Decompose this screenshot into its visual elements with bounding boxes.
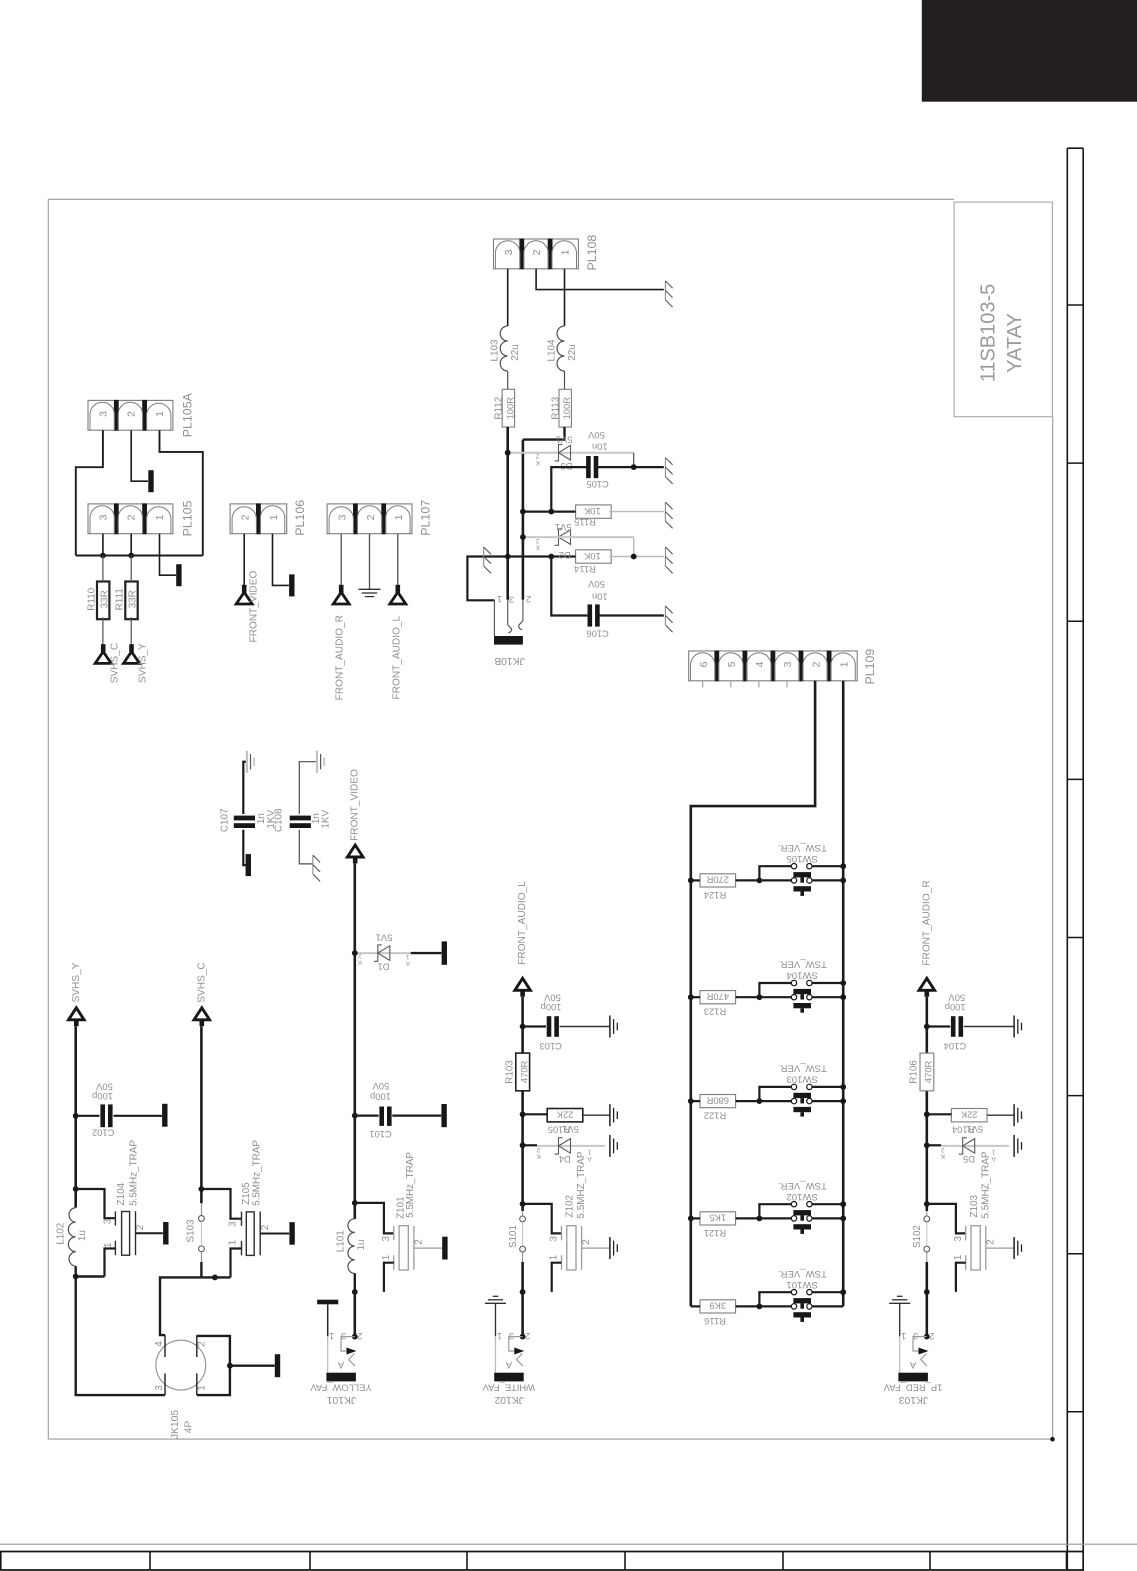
wire D1 anode to ground bar	[411, 952, 442, 954]
wire S102 top stub	[926, 1211, 928, 1216]
svg-text:3: 3	[381, 1235, 392, 1241]
wire Z101 pin1 lead	[384, 1263, 394, 1292]
svg-text:K: K	[357, 959, 362, 966]
svg-text:R122: R122	[704, 1111, 726, 1122]
wire D1 rail (light)	[355, 952, 411, 954]
svg-text:100p: 100p	[541, 1002, 562, 1013]
svg-text:C105: C105	[586, 479, 608, 490]
wire PL105 pin2 stub	[130, 534, 132, 556]
port flag SVHS_C (mid)	[194, 1008, 210, 1020]
wire PL108 pin1 to L104	[564, 269, 566, 326]
svg-text:1: 1	[268, 514, 280, 520]
wire D3 rail (light)	[508, 452, 634, 454]
capacitor C106	[588, 604, 593, 626]
wire JK105 pin2 to ground	[197, 1336, 275, 1366]
svg-text:PL105A: PL105A	[181, 392, 195, 437]
svg-text:L104: L104	[546, 339, 557, 361]
jack JK105 (4P mini-DIN)	[156, 1340, 206, 1390]
chassis ground (C105)	[664, 458, 666, 477]
ground bar (PL105A pin2)	[148, 470, 153, 492]
svg-text:5.5MHz_TRAP: 5.5MHz_TRAP	[128, 1140, 139, 1206]
wire R114 left lead	[508, 555, 576, 557]
svg-text:2: 2	[531, 249, 543, 255]
svg-text:SVHS_C: SVHS_C	[197, 962, 208, 1002]
switch SW103 + resistor R122	[700, 1095, 736, 1108]
ground bar (D1)	[442, 941, 447, 964]
svg-text:R113: R113	[550, 396, 561, 419]
svg-text:5V1: 5V1	[966, 1124, 983, 1135]
wire PL109 pin1 right bus	[842, 681, 845, 1306]
svg-text:470R: 470R	[923, 1060, 934, 1083]
wire FRONT_AUDIO_L upper vertical	[521, 997, 524, 1211]
svg-text:3: 3	[782, 661, 794, 667]
svg-text:1: 1	[154, 411, 166, 417]
svg-text:1: 1	[497, 1331, 502, 1341]
svg-text:5.5MHz_TRAP: 5.5MHz_TRAP	[251, 1140, 262, 1206]
inductor L104	[557, 326, 565, 371]
svg-text:1: 1	[838, 661, 850, 667]
resistor R110	[97, 582, 109, 620]
wire R104 left lead	[927, 1113, 952, 1115]
wire D5 rail (light)	[941, 1145, 1009, 1147]
resistor R112	[502, 389, 514, 427]
svg-text:10n: 10n	[592, 591, 608, 602]
svg-text:100R: 100R	[504, 397, 515, 420]
svg-text:50V: 50V	[372, 1081, 389, 1092]
svg-text:C102: C102	[92, 1128, 114, 1139]
ground bar (JK105)	[275, 1354, 280, 1377]
earth ground (Z102 pin2)	[609, 1237, 611, 1259]
svg-text:5V1: 5V1	[556, 434, 573, 445]
svg-text:10K: 10K	[583, 506, 600, 517]
ground bar (Z104 pin2)	[163, 1222, 168, 1245]
svg-text:SW101: SW101	[786, 1279, 817, 1290]
port flag SVHS_Y (top)	[129, 644, 134, 652]
node bus1/D3 junction	[505, 450, 511, 456]
svg-text:3: 3	[336, 514, 348, 520]
svg-text:D4: D4	[559, 1154, 571, 1165]
svg-text:1: 1	[381, 1254, 392, 1260]
svg-text:A: A	[991, 1155, 996, 1162]
wire C102 right lead	[114, 1115, 162, 1117]
resistor R103	[516, 1053, 530, 1091]
wire C104 right lead	[964, 1026, 1014, 1028]
svg-text:22u: 22u	[510, 344, 521, 360]
svg-text:4: 4	[754, 661, 766, 667]
wire S102 bottom stub	[926, 1252, 928, 1262]
svg-text:22K: 22K	[556, 1110, 573, 1121]
svg-text:2: 2	[581, 1239, 592, 1245]
node L101 junction	[352, 1200, 358, 1206]
wire D5 stub	[927, 1144, 941, 1146]
node C102 junction	[73, 1113, 79, 1119]
resistor R106	[920, 1053, 934, 1091]
wire PL109 pin2 to left bus	[691, 681, 815, 1307]
svg-text:1: 1	[953, 1254, 964, 1260]
svg-text:22K: 22K	[960, 1110, 977, 1121]
svg-text:2: 2	[197, 1341, 208, 1347]
svg-text:1: 1	[393, 514, 405, 520]
svg-text:D5: D5	[963, 1154, 975, 1165]
wire FRONT_AUDIO_L lower vertical	[521, 1262, 524, 1337]
svg-text:270R: 270R	[706, 875, 729, 886]
capacitor C105	[586, 456, 591, 478]
wire Z104 pin3 branch	[76, 1189, 116, 1218]
svg-text:S103: S103	[185, 1219, 196, 1243]
wire C105 right plate to chassis	[598, 466, 664, 468]
wire S101 bottom stub	[522, 1252, 524, 1262]
svg-text:TSW_VER.: TSW_VER.	[778, 959, 827, 970]
jack JK102 (WHITE_FAV)	[493, 1295, 499, 1297]
svg-text:R124: R124	[704, 890, 726, 901]
wire C108 bottom lead	[299, 830, 313, 864]
wire S103 bottom	[200, 1262, 202, 1277]
zone reference column (right edge)	[1066, 148, 1068, 1571]
svg-text:1: 1	[197, 1385, 208, 1391]
earth ground (C108)	[316, 751, 318, 773]
wire L102 bottom lead	[74, 1266, 76, 1276]
node R115/bus2 junction	[520, 509, 526, 515]
svg-text:3: 3	[227, 1221, 238, 1227]
svg-text:100p: 100p	[92, 1091, 113, 1102]
pin stub PL109 pin6	[702, 681, 704, 688]
inductor L102	[68, 1208, 75, 1267]
svg-text:S101: S101	[508, 1224, 519, 1248]
node R114/C106 junction	[548, 554, 554, 560]
svg-text:3: 3	[953, 1235, 964, 1241]
wire C104 left lead	[927, 1025, 950, 1027]
wire SVHS_Y vertical	[74, 1026, 77, 1207]
wire Z103 pin3 branch	[927, 1204, 966, 1234]
earth ground (C104)	[1013, 1016, 1015, 1038]
wire R105 right lead	[583, 1114, 610, 1116]
wire PL108 pin2 to chassis	[536, 269, 664, 290]
wire L103 to R112	[507, 371, 509, 389]
chassis ground (R115)	[664, 502, 666, 521]
ground bar (C107)	[246, 854, 251, 876]
svg-text:R103: R103	[505, 1060, 516, 1084]
wire JK105 pin4 net	[160, 1277, 231, 1335]
ground bar (PL106 pin1)	[289, 574, 294, 596]
chassis ground (C108)	[312, 855, 314, 874]
svg-text:50V: 50V	[587, 579, 604, 590]
svg-text:5.5MHZ_TRAP: 5.5MHZ_TRAP	[576, 1151, 587, 1218]
capacitor C101	[379, 1107, 384, 1126]
svg-text:PL108: PL108	[585, 235, 599, 271]
port flag FRONT_AUDIO_R (at PL107)	[339, 585, 344, 593]
svg-text:4P: 4P	[183, 1421, 194, 1434]
resistor R115	[576, 505, 612, 518]
svg-text:2: 2	[535, 537, 539, 544]
svg-text:PL105: PL105	[181, 500, 195, 536]
svg-text:2: 2	[810, 661, 822, 667]
svg-text:C108: C108	[273, 808, 284, 832]
svg-text:10K: 10K	[583, 551, 600, 562]
capacitor C104	[951, 1016, 956, 1037]
trap Z104 5.5MHz	[114, 1211, 116, 1225]
wire Z102 pin3 branch	[523, 1204, 562, 1234]
svg-text:5.5MHz_TRAP: 5.5MHz_TRAP	[405, 1152, 416, 1218]
node JK102 feed junction	[520, 1289, 526, 1295]
svg-text:33R: 33R	[128, 590, 139, 608]
svg-text:3: 3	[97, 514, 109, 520]
svg-text:SVHS_Y: SVHS_Y	[71, 962, 82, 1002]
connector PL109	[689, 651, 858, 681]
node L102 junction	[73, 1186, 79, 1192]
svg-text:5.5MHZ_TRAP: 5.5MHZ_TRAP	[980, 1151, 991, 1218]
svg-text:2: 2	[365, 514, 377, 520]
svg-text:A: A	[337, 1360, 344, 1370]
pin stub PL109 pin3	[786, 681, 788, 688]
resistor R114	[576, 550, 612, 563]
wire PL105A pin1 to bus	[160, 430, 203, 555]
svg-text:2: 2	[126, 514, 138, 520]
zener D5	[959, 1138, 967, 1154]
svg-text:470R: 470R	[519, 1060, 530, 1083]
wire D2 rail (light)	[523, 536, 634, 538]
svg-text:Z103: Z103	[969, 1195, 980, 1218]
svg-text:5: 5	[726, 661, 738, 667]
switch SW102 + resistor R121	[700, 1212, 736, 1225]
svg-text:R106: R106	[909, 1060, 920, 1084]
node R114 right junction	[631, 554, 637, 560]
svg-text:R111: R111	[115, 588, 126, 611]
svg-text:A: A	[909, 1360, 916, 1370]
node C101 junction	[352, 1113, 358, 1119]
svg-text:2: 2	[357, 1331, 362, 1341]
svg-text:YELLOW_FAV: YELLOW_FAV	[310, 1383, 372, 1394]
svg-text:470R: 470R	[706, 992, 729, 1003]
svg-text:A: A	[405, 960, 410, 967]
svg-text:SW102: SW102	[786, 1191, 817, 1202]
earth ground (D4)	[609, 1135, 611, 1157]
svg-text:680R: 680R	[706, 1095, 729, 1106]
wire R115 right lead to chassis	[609, 511, 664, 513]
trap Z105 5.5MHz	[241, 1212, 243, 1226]
wire C108 top lead	[299, 762, 317, 814]
svg-text:33R: 33R	[99, 590, 110, 608]
wire PL107 pin2 to earth	[369, 534, 371, 590]
svg-text:WHITE_FAV: WHITE_FAV	[482, 1383, 535, 1394]
svg-text:2: 2	[985, 1239, 996, 1245]
svg-text:C106: C106	[586, 629, 608, 640]
inductor L103	[500, 326, 508, 371]
svg-text:JK10B: JK10B	[494, 655, 524, 666]
node S103/Z105 junction	[199, 1186, 205, 1192]
wire PL106 pin2 to flag	[243, 534, 245, 586]
earth ground (R104)	[1013, 1104, 1015, 1126]
svg-text:1: 1	[560, 249, 572, 255]
svg-text:2: 2	[941, 1146, 945, 1153]
port flag SVHS_C (top)	[101, 644, 106, 652]
wire S103 bottom stub	[200, 1252, 202, 1262]
wire bus2 vertical (JK10B pin2 net)	[522, 440, 525, 600]
svg-text:100p: 100p	[945, 1002, 966, 1013]
svg-text:C103: C103	[539, 1041, 561, 1052]
svg-text:A: A	[587, 1155, 592, 1162]
chassis ground (R114)	[664, 547, 666, 566]
wire D4 stub	[523, 1144, 537, 1146]
wire C106 left feed	[551, 557, 587, 616]
node C104 junction	[924, 1024, 930, 1030]
earth ground (C107)	[246, 751, 248, 773]
node Z102 junction	[520, 1201, 526, 1207]
wire PL107 pin1 to flag	[397, 534, 399, 586]
resistor R111	[125, 582, 137, 620]
svg-text:1: 1	[549, 1254, 560, 1260]
wire D3 anode to C105 node	[633, 453, 635, 467]
svg-text:JK105: JK105	[170, 1410, 181, 1439]
svg-text:C107: C107	[219, 808, 230, 832]
trap Z102 5.5MHz	[561, 1226, 563, 1240]
svg-text:K: K	[940, 1152, 945, 1159]
wire FRONT_AUDIO_R upper vertical	[925, 997, 928, 1211]
wire PL105 pin3 stub	[102, 534, 104, 556]
earth ground (C103)	[609, 1016, 611, 1038]
capacitor C102	[100, 1104, 105, 1127]
zener D4	[555, 1138, 563, 1154]
svg-text:PL109: PL109	[863, 649, 877, 685]
svg-text:JK101: JK101	[327, 1394, 356, 1405]
svg-text:R115: R115	[574, 517, 596, 528]
capacitor C103	[547, 1016, 552, 1037]
node D5 junction	[924, 1142, 930, 1148]
wire L104 to R113	[564, 371, 566, 389]
svg-text:2: 2	[413, 1239, 424, 1245]
ground bar (Z101 pin2)	[442, 1237, 447, 1260]
svg-text:R123: R123	[704, 1007, 726, 1018]
node JK105 ground junction	[227, 1363, 233, 1369]
trap Z101 5.5MHz	[393, 1226, 395, 1240]
port flag FRONT_VIDEO (mid)	[347, 845, 363, 857]
svg-text:SVHS_Y: SVHS_Y	[138, 643, 149, 683]
wire L101 bottom lead	[354, 1273, 356, 1292]
node C103 junction	[520, 1024, 526, 1030]
svg-text:1: 1	[497, 594, 502, 605]
svg-text:3K9: 3K9	[709, 1301, 726, 1312]
svg-text:R114: R114	[574, 564, 596, 575]
chassis ground (PL108 pin2)	[664, 281, 666, 300]
wire PL105A pin2 stub	[131, 430, 148, 481]
wire C105 left plate to R115	[551, 467, 586, 512]
switch SW104 + resistor R123	[700, 991, 736, 1004]
wire L101 top lead	[354, 1203, 356, 1219]
zener D2	[555, 529, 563, 545]
svg-text:Z102: Z102	[565, 1195, 576, 1218]
svg-text:4: 4	[154, 1341, 165, 1347]
inductor L101	[348, 1219, 355, 1274]
node R105 junction	[520, 1111, 526, 1117]
black logo box (redacted logo, top-right)	[922, 0, 1137, 102]
title box 11SB103-5 YATAY	[954, 202, 1052, 417]
svg-text:SW105: SW105	[786, 853, 817, 864]
svg-text:D2: D2	[559, 550, 571, 561]
wire PL108 pin3 to L103	[507, 269, 509, 326]
svg-text:1: 1	[901, 1331, 906, 1341]
wire R114 right lead to chassis	[609, 556, 664, 558]
svg-text:JK103: JK103	[899, 1394, 928, 1405]
node JK101 feed junction	[352, 1289, 358, 1295]
node S103 net junction	[212, 1275, 218, 1281]
wire PL105 pin1 to ground	[160, 534, 177, 576]
svg-text:R116: R116	[704, 1316, 726, 1327]
svg-text:50V: 50V	[95, 1082, 112, 1093]
earth ground (D5)	[1013, 1135, 1015, 1157]
port flag FRONT_VIDEO (at PL106)	[242, 585, 247, 593]
svg-text:A: A	[505, 1360, 512, 1370]
svg-text:JK102: JK102	[494, 1394, 523, 1405]
connector PL105	[88, 504, 173, 534]
connector PL105A	[88, 400, 173, 430]
svg-text:2: 2	[929, 1331, 934, 1341]
svg-text:FRONT_AUDIO_R: FRONT_AUDIO_R	[335, 615, 346, 700]
chassis ground (JK10B shield)	[483, 547, 485, 566]
node PL105 pin3 junction	[100, 553, 106, 559]
svg-text:2: 2	[525, 1331, 530, 1341]
svg-text:TSW_VER.: TSW_VER.	[778, 1063, 827, 1074]
svg-text:1K5: 1K5	[709, 1213, 726, 1224]
wire PL106 pin1 to ground	[273, 534, 289, 586]
svg-text:SW103: SW103	[786, 1074, 817, 1085]
svg-text:S102: S102	[912, 1225, 923, 1248]
svg-text:1: 1	[329, 1331, 334, 1341]
zener D1	[374, 945, 382, 961]
zener D3	[555, 445, 563, 461]
jack JK103 (1P_RED_FAV)	[897, 1295, 903, 1297]
svg-text:SVHS_C: SVHS_C	[110, 643, 121, 683]
resistor R104 22K	[951, 1109, 987, 1122]
svg-text:100R: 100R	[561, 397, 572, 420]
svg-text:3: 3	[549, 1235, 560, 1241]
ground bar (PL105 pin1)	[176, 564, 181, 586]
earth ground (PL107 pin2)	[359, 588, 381, 590]
port flag FRONT_AUDIO_L (mid)	[515, 978, 531, 990]
svg-text:2: 2	[358, 952, 362, 959]
wire R105 left lead	[523, 1113, 548, 1115]
node Z103 junction	[924, 1201, 930, 1207]
wire D4 rail (light)	[537, 1145, 605, 1147]
svg-text:2: 2	[260, 1225, 271, 1231]
svg-text:5V1: 5V1	[562, 1124, 579, 1135]
svg-text:2: 2	[135, 1225, 146, 1231]
wire D2 anode down	[633, 537, 635, 556]
svg-text:K: K	[536, 1152, 541, 1159]
connector PL107	[327, 504, 412, 534]
svg-text:50V: 50V	[587, 430, 604, 441]
wire Z102 pin1 lead	[552, 1263, 562, 1292]
svg-text:R112: R112	[494, 397, 505, 420]
svg-text:5V1: 5V1	[555, 522, 572, 533]
connector PL106	[230, 504, 287, 534]
node C105/chassis junction	[631, 464, 637, 470]
wire C101 right lead	[392, 1114, 441, 1116]
node JK103 feed junction	[924, 1289, 930, 1295]
svg-text:PL107: PL107	[419, 500, 433, 536]
chassis ground (C106)	[664, 606, 666, 625]
ground bar (C101)	[441, 1104, 446, 1127]
switch SW105 + resistor R124	[700, 874, 736, 887]
svg-text:6: 6	[698, 661, 710, 667]
resistor R113	[559, 389, 571, 427]
wire JK101 feed	[353, 1292, 356, 1337]
node R104 junction	[924, 1111, 930, 1117]
wire SVHS_C vertical	[200, 1026, 203, 1203]
svg-text:FRONT_AUDIO_L: FRONT_AUDIO_L	[391, 616, 402, 700]
switch S102	[924, 1216, 930, 1222]
wire JK10B shield path	[467, 557, 507, 601]
jack JK10B	[494, 636, 523, 645]
wire R111 top lead	[130, 556, 132, 582]
